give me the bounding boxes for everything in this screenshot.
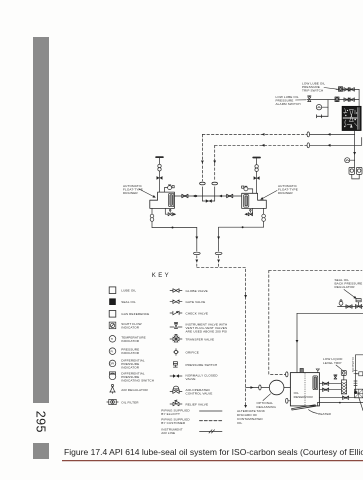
svg-text:BY CUSTOMER: BY CUSTOMER	[161, 421, 186, 425]
key: temperature indicator	[109, 336, 116, 343]
pressure indicator at seal pots	[345, 158, 355, 163]
svg-text:KEY: KEY	[152, 273, 171, 279]
svg-text:Figure 17.4 API 614 lube-seal: Figure 17.4 API 614 lube-seal oil system…	[64, 447, 363, 457]
key: pressure indicator	[109, 348, 116, 355]
wire: dashed drop x=214.7 to instrument valve	[214, 145, 216, 181]
reservoir lower left flange	[286, 398, 288, 403]
wire: stub to small box	[356, 373, 359, 375]
vent test connection	[317, 115, 328, 118]
pointer to heater	[309, 410, 318, 414]
svg-text:LUBE OIL: LUBE OIL	[121, 288, 136, 292]
svg-text:GLOBE VALVE: GLOBE VALVE	[186, 289, 208, 293]
gate valve on regulator line	[346, 305, 352, 309]
arrow on discard drop (upper)	[244, 295, 247, 298]
wire: right drain header	[219, 226, 264, 228]
arrow on right drain tail	[217, 260, 220, 263]
svg-text:DPI: DPI	[110, 362, 115, 366]
key: gate valve	[170, 300, 182, 304]
label: ALTERNATE DISCARD OF CONTAMINATED OIL	[237, 409, 263, 425]
key: globe valve	[170, 289, 182, 293]
gate valve on alarm line	[344, 98, 350, 102]
svg-text:PI: PI	[111, 349, 114, 353]
wire: drop to reservoir x=297	[296, 313, 298, 372]
key: orifice	[173, 349, 178, 356]
small box on right riser	[359, 372, 363, 376]
key: instrument valve with vent plug	[170, 323, 182, 329]
instrument lens on right gas ref drop	[212, 182, 218, 185]
label: AUTOMATIC FLOAT-TYPE DRAINER (left)	[123, 184, 143, 195]
svg-text:295: 295	[34, 411, 48, 433]
arrow on right drain drop	[217, 237, 220, 240]
svg-text:CONTROL VALVE: CONTROL VALVE	[186, 391, 213, 395]
automatic float-type drainer (left) body	[150, 192, 175, 208]
aux drain arrow	[244, 213, 247, 216]
right drainer sight glass	[244, 195, 249, 208]
wire: solid drop to seal line	[214, 187, 216, 201]
svg-text:ORIFICE: ORIFICE	[186, 350, 199, 354]
arrow on left gas ref drop	[201, 161, 204, 164]
wire: alarm switch line y=99.6	[307, 99, 359, 101]
gate valve on alarm line	[348, 98, 354, 102]
heater element	[292, 405, 316, 410]
wire: seal oil return dashed line y=270.3	[269, 269, 362, 271]
svg-text:GATE VALVE: GATE VALVE	[186, 300, 206, 304]
flange on left drain drop	[193, 252, 200, 254]
arrow into degassing branch	[251, 386, 254, 389]
pointer to regulator	[344, 290, 357, 300]
wire: pump discharge diagonal	[359, 397, 363, 410]
reservoir centre dotted line	[304, 373, 306, 405]
sidebar gray bar	[33, 37, 49, 403]
gate valve right of center	[227, 194, 233, 198]
reservoir top fitting (hatch box)	[300, 368, 303, 372]
wire: gas ref dashed line2 to left	[215, 144, 306, 146]
wire: gas ref dashed line1 to left	[202, 133, 306, 135]
key: transfer valve	[170, 334, 182, 342]
arrow on main line right	[219, 195, 222, 198]
wire: right drain drop	[218, 227, 220, 251]
wire: stub from compressor bottom	[354, 131, 356, 135]
right aux drain valve with arrow	[247, 208, 253, 215]
label: AUTOMATIC FLOAT-TYPE DRAINER (right)	[278, 184, 298, 195]
wire: right edge supply corner y=354.8	[356, 355, 363, 392]
svg-text:RELIEF VALVE: RELIEF VALVE	[186, 402, 209, 406]
gate valve on trip line	[344, 88, 350, 92]
oil reservoir tank	[290, 373, 319, 406]
wire: left drain drop	[196, 228, 198, 252]
svg-text:INDICATING SWITCH: INDICATING SWITCH	[121, 378, 154, 382]
svg-text:HEATER: HEATER	[318, 412, 332, 416]
wire: right drainer main drain	[263, 208, 265, 227]
reservoir level gauge	[313, 376, 318, 390]
wire: solid drop to seal line	[201, 187, 203, 201]
left drainer float pilot	[164, 185, 174, 192]
wire: trip switch line y=89.4	[336, 88, 359, 90]
label: OPTIONAL DEGASSING TANK	[257, 401, 277, 413]
wire: left drainer vent riser	[159, 158, 161, 192]
wire: degassing tank to reservoir	[284, 387, 291, 389]
wire: reservoir outlet lower y=389.7	[319, 389, 341, 391]
drain trap double-circle valve	[150, 214, 154, 221]
label: SEAL OIL BACK PRESSURE REGULATOR	[335, 278, 363, 289]
svg-text:GAS REFERENCE: GAS REFERENCE	[121, 312, 149, 316]
caption red underline	[62, 460, 363, 462]
node junction left	[195, 195, 197, 197]
automatic float-type drainer (right) body	[242, 193, 267, 208]
svg-text:TI: TI	[111, 337, 114, 341]
right drainer float pilot	[242, 186, 253, 193]
svg-text:TANK: TANK	[257, 409, 266, 413]
arrow at discard end	[244, 405, 247, 408]
KEY section	[107, 273, 228, 435]
wire: dashed drop x=203 to instrument valve	[201, 134, 203, 181]
key: pressure switch	[173, 362, 177, 367]
vent double-circle trap	[255, 165, 258, 172]
svg-text:TRANSFER VALVE: TRANSFER VALVE	[186, 337, 215, 341]
instrument valve on alarm line	[308, 96, 311, 102]
arrow down on drop	[353, 152, 356, 155]
gate valve on lower outlet	[323, 388, 329, 392]
key: differential pressure indicator	[109, 360, 116, 367]
arrow on main line left	[193, 195, 196, 198]
aux drain arrow	[173, 213, 176, 216]
wire: dashed drop to reservoir x=268.8	[269, 270, 286, 374]
pressure switch PS1 (trip)	[338, 87, 342, 92]
svg-text:ALARM SWITCH: ALARM SWITCH	[276, 102, 301, 106]
check valve on cross connector	[206, 199, 212, 203]
vent T cap left	[156, 156, 163, 158]
fitting tick on right riser	[354, 371, 357, 374]
key: air-operated control valve	[170, 386, 182, 393]
pointer to left drainer	[139, 189, 156, 199]
instrument valve above transfer block	[334, 375, 337, 379]
key: lube oil swatch	[109, 287, 116, 294]
sidebar gray square	[33, 443, 49, 459]
pointer to right drainer	[260, 191, 277, 201]
wire: dashed tail to drain header	[196, 256, 198, 268]
wire: right drainer vent riser	[256, 158, 258, 193]
flange on right drain drop	[215, 252, 222, 254]
pointer line to trip switch	[324, 88, 338, 90]
wire: seal oil supply header y=313.3	[297, 312, 363, 314]
key: seal oil swatch	[109, 298, 116, 305]
wire: long bottom line y=402.6	[318, 402, 363, 404]
node on right drain header	[242, 226, 244, 228]
svg-text:ARE USED ABOVE 200 PSI: ARE USED ABOVE 200 PSI	[186, 329, 228, 333]
left drainer sight glass	[169, 193, 174, 206]
vent T cap right	[253, 157, 260, 159]
svg-text:AIR LINE: AIR LINE	[161, 431, 175, 435]
svg-text:RESERVOIR: RESERVOIR	[294, 395, 314, 399]
label: LOW LUBE OIL PRESSURE TRIP SWITCH	[302, 82, 325, 93]
wire: U connector under trap pots	[352, 174, 359, 179]
arrow on line1	[328, 133, 331, 136]
junction blob at pump suction	[354, 391, 357, 394]
svg-text:SEAL OIL: SEAL OIL	[121, 300, 136, 304]
vent double-circle trap	[158, 164, 161, 171]
instrument lens on left gas ref drop	[200, 182, 206, 185]
wire: cross connector with check valve	[202, 200, 214, 202]
wire: dashed drain header to discard	[197, 267, 246, 407]
svg-text:CHECK VALVE: CHECK VALVE	[186, 311, 209, 315]
wire: level switch drop	[343, 375, 345, 380]
pointer to level trip switch	[336, 365, 342, 370]
fittings on right riser	[354, 381, 357, 385]
label: OIL RESERVOIR	[294, 391, 314, 399]
gate valve on upper outlet	[323, 382, 329, 386]
main oil pump (hatched box)	[355, 389, 363, 398]
key: sight flow indicator	[109, 322, 116, 329]
seal oil trap pot 1	[349, 167, 355, 174]
label: LOW LUBE OIL PRESSURE ALARM SWITCH	[276, 95, 301, 106]
vent NC valve	[254, 176, 260, 180]
arrow down on reservoir drop	[296, 340, 299, 343]
flange on degassing branch	[259, 385, 261, 390]
wire: pump suction line y=397.7	[319, 397, 357, 399]
wire: left drain header	[152, 227, 197, 229]
key: normally closed valve	[170, 374, 182, 378]
arrow on line2	[328, 144, 331, 147]
wire: left drainer main drain	[151, 208, 153, 227]
node junction right	[220, 195, 222, 197]
svg-text:LEVEL TRIP: LEVEL TRIP	[323, 361, 342, 365]
arrow on right gas ref drop	[213, 161, 216, 164]
svg-text:REGULATOR: REGULATOR	[335, 285, 356, 289]
svg-text:OIL FILTER: OIL FILTER	[121, 400, 139, 404]
svg-text:VALVE: VALVE	[186, 377, 196, 381]
pointer to degassing tank	[263, 394, 271, 401]
arrow on dashed line2	[262, 144, 265, 147]
node on left drain header	[172, 227, 174, 229]
svg-text:AIR REGULATOR: AIR REGULATOR	[121, 388, 148, 392]
key: gas reference swatch	[109, 311, 116, 318]
vent NC valve	[157, 176, 163, 180]
pressure indicator PI (top)	[316, 105, 328, 110]
pressure switch PS2 (alarm)	[335, 97, 339, 102]
wire: right edge stub up	[361, 138, 363, 146]
wire: vertical x=359.1 down to compressor	[358, 89, 360, 106]
wire: regulator line y=306.5	[338, 306, 363, 308]
orifice on line1	[307, 132, 309, 137]
wire: reservoir outlet upper y=383.7	[319, 383, 341, 385]
node on bottom line	[339, 402, 341, 404]
back pressure regulator valve	[356, 299, 362, 309]
svg-text:PRESSURE SWITCH: PRESSURE SWITCH	[186, 363, 218, 367]
svg-text:INDICATOR: INDICATOR	[121, 351, 139, 355]
flange at reservoir return inlet	[286, 372, 288, 377]
key: check valve	[170, 311, 182, 315]
gate valve on pump suction	[343, 396, 349, 400]
air pilot on regulator line	[339, 299, 343, 306]
svg-text:INDICATOR: INDICATOR	[121, 366, 139, 370]
key: relief valve	[170, 400, 182, 406]
optional degassing tank	[269, 380, 284, 395]
level trip switch box	[341, 370, 346, 375]
seal oil trap pot 2	[356, 167, 362, 174]
key: air regulator	[110, 384, 116, 393]
gate valve on trip line	[348, 88, 354, 92]
svg-text:DRAINER: DRAINER	[278, 191, 293, 195]
svg-text:INDICATOR: INDICATOR	[121, 326, 139, 330]
compressor unit (dark hatched box)	[342, 106, 361, 130]
arrow on dashed line1	[262, 133, 265, 136]
reservoir top vent	[316, 369, 319, 373]
wire: main seal line between drainers y=196	[174, 195, 241, 197]
key: oil filter	[107, 399, 118, 404]
wire: branch to degassing tank	[246, 387, 270, 389]
arrow on left drain drop	[195, 237, 198, 240]
wire: reservoir bottom stub	[317, 403, 319, 406]
transfer valve block (hatched)	[341, 380, 346, 394]
wire: dashed tail right drain	[218, 256, 220, 268]
svg-text:OIL: OIL	[237, 421, 243, 425]
key: differential pressure indicating switch	[109, 372, 116, 380]
label: LOW LIQUID LEVEL TRIP	[323, 357, 343, 365]
wire: lube oil line2 y=145.3 solid part	[306, 144, 362, 146]
svg-text:TRIP SWITCH: TRIP SWITCH	[302, 89, 323, 93]
wire: drop from line1 to seal pots x=354.6	[354, 134, 356, 167]
wire: stub into lower flange	[288, 400, 290, 402]
svg-text:BY ELLIOTT: BY ELLIOTT	[161, 412, 180, 416]
gate valve left of center	[182, 194, 188, 198]
arrow on left drain tail	[195, 260, 198, 263]
pointer line to alarm switch	[296, 99, 307, 101]
wire: lube oil line1 y=134.4 solid part	[306, 133, 355, 135]
svg-text:DRAINER: DRAINER	[123, 191, 138, 195]
drain trap double-circle valve	[262, 214, 266, 221]
orifice on line2	[307, 143, 309, 148]
svg-text:INDICATOR: INDICATOR	[121, 339, 139, 343]
left aux drain valve with arrow	[165, 208, 173, 215]
wire: vertical feed to gauge branch x=328	[327, 100, 329, 117]
